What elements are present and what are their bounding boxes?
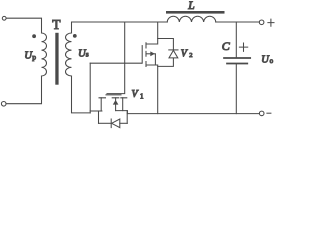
capacitor C lead top (235, 22, 237, 57)
inductor L winding (167, 16, 216, 22)
wire gate feed V2 horizontal (90, 62, 141, 64)
mosfet V2 body tail (146, 53, 150, 55)
mosfet V2 body arrow (150, 51, 155, 56)
diode of V2 bottom wire (158, 58, 174, 66)
mosfet V1 drain stub (100, 98, 102, 111)
svg-text:V: V (181, 48, 189, 59)
terminal output minus (259, 111, 264, 116)
diode of V1 anode wire (99, 122, 111, 124)
wire input plus to primary top (7, 18, 42, 33)
diode of V2 triangle (169, 50, 178, 58)
wire primary bottom to input minus (6, 76, 42, 104)
mosfet V1 body stem (115, 104, 117, 110)
mosfet V1 body arrow (113, 100, 119, 105)
transformer core bar (55, 33, 58, 85)
svg-text:o: o (270, 57, 274, 65)
svg-text:T: T (52, 17, 61, 32)
diode of V1 left leg (98, 111, 100, 123)
mosfet V1 source line (116, 111, 128, 114)
wire bottom rail (127, 113, 259, 115)
polarity dot primary (32, 34, 36, 38)
mosfet V2 source stub (146, 65, 158, 114)
diode of V1 right leg (126, 111, 128, 124)
mosfet V2 body stem (154, 54, 157, 65)
diode of V1 triangle (112, 119, 120, 128)
mosfet V2 channel segments (145, 43, 147, 67)
diode of V2 cathode bar (169, 49, 178, 51)
svg-text:s: s (86, 50, 89, 59)
mosfet V1 drain line (90, 110, 102, 112)
mosfet V1 gate bar (106, 94, 121, 96)
diode of V2 top wire (158, 39, 174, 50)
svg-text:p: p (32, 52, 36, 61)
wire secondary bottom loop (72, 76, 91, 113)
polarity dot secondary (73, 34, 77, 38)
diode of V1 cathode wire (120, 122, 127, 124)
plus sign output (268, 19, 274, 26)
svg-text:L: L (187, 0, 194, 12)
terminal output plus (259, 20, 264, 25)
mosfet V2 gate bar (141, 46, 143, 64)
capacitor C top plate (224, 57, 250, 59)
transformer T primary winding (42, 33, 47, 76)
svg-text:2: 2 (189, 52, 192, 59)
terminal input plus (2, 16, 6, 20)
mosfet V2 drain stub (146, 22, 158, 44)
wire top rail left (72, 22, 168, 33)
wire gate feed V1 from top rail (107, 22, 125, 94)
inductor L core bar (166, 11, 225, 14)
svg-text:1: 1 (140, 93, 144, 101)
terminal input minus (1, 102, 6, 107)
mosfet V1 channel segments (99, 97, 127, 99)
capacitor C bottom plate (227, 63, 247, 65)
transformer T secondary winding (66, 33, 72, 76)
svg-text:C: C (222, 39, 231, 53)
mosfet V1 source stub (122, 98, 124, 111)
mosfet V1 body stem upper (115, 98, 117, 100)
wire top rail right (216, 21, 259, 23)
plus sign capacitor (239, 43, 247, 51)
minus sign output (267, 112, 271, 114)
diode of V1 cathode bar (110, 119, 112, 128)
svg-text:V: V (132, 89, 140, 100)
capacitor C lead bottom (235, 64, 237, 113)
wire node B vertical (89, 63, 91, 113)
